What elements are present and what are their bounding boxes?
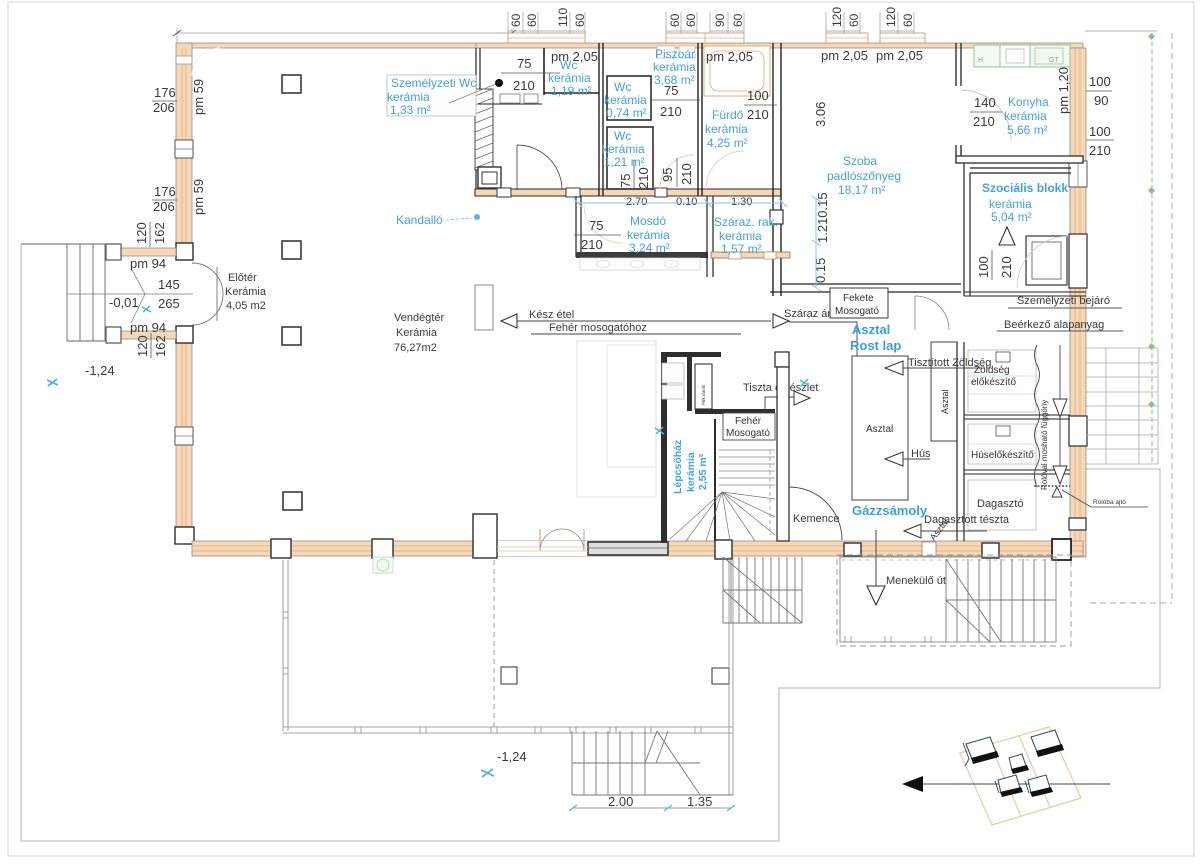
svg-text:5,04 m²: 5,04 m² — [991, 210, 1032, 224]
prep divider 1 — [964, 415, 1070, 419]
fehermosogato box — [723, 413, 775, 440]
pillar below chimney — [475, 285, 493, 330]
exterior top wall konyha — [956, 43, 1083, 48]
top rotated dims 90 60 — [713, 13, 745, 27]
svg-text:75: 75 — [589, 218, 603, 233]
fuerdo bathtub — [704, 46, 770, 96]
blue scribble bottom — [481, 769, 494, 777]
svg-text:kerámia: kerámia — [548, 71, 591, 85]
svg-text:60: 60 — [525, 13, 539, 27]
green diamonds on utility line — [1148, 33, 1155, 408]
shower box szocialis — [1026, 236, 1067, 285]
dim 100/210 fuerdo — [744, 88, 777, 122]
label zoldseg elokeszito — [971, 365, 1016, 388]
wc 1.21 room box — [607, 127, 653, 189]
label wc 1.19 — [548, 58, 592, 98]
svg-text:95: 95 — [660, 168, 675, 182]
green dashed utility line right — [1151, 33, 1153, 465]
svg-text:60: 60 — [684, 13, 698, 27]
right wall small box — [1069, 518, 1086, 530]
svg-text:kerámia: kerámia — [653, 60, 696, 74]
blue mark near entry — [142, 306, 151, 312]
svg-text:140: 140 — [974, 95, 996, 110]
svg-text:Rolóval mosható függöny: Rolóval mosható függöny — [1040, 400, 1049, 490]
svg-text:kerámia: kerámia — [627, 228, 670, 242]
right wall door opening — [1069, 234, 1087, 288]
green counters zoldseg — [968, 350, 1036, 412]
svg-text:Szociális blokk: Szociális blokk — [982, 181, 1068, 195]
window dim extension lines cluster5 — [880, 12, 914, 33]
svg-text:120: 120 — [830, 7, 844, 27]
konyha counters green — [974, 45, 1070, 67]
dims right 100/90 — [1086, 74, 1112, 108]
window dim extension lines cluster4 — [826, 12, 860, 33]
svg-text:Konyha: Konyha — [1008, 95, 1049, 109]
label pm 2,05 szoba (x2) — [821, 48, 923, 63]
lepcsohaz top wall — [667, 352, 721, 357]
site boundary left/bottom — [21, 245, 1160, 841]
svg-text:120: 120 — [135, 335, 150, 357]
left exterior wall upper — [176, 43, 192, 245]
svg-text:120: 120 — [884, 7, 898, 27]
porch column top — [106, 244, 121, 260]
prep rooms left wall — [957, 342, 964, 541]
terrace right edge — [729, 557, 733, 795]
right terrace dashed outline — [837, 555, 1071, 646]
label feher mosogatohoz — [531, 322, 741, 334]
green counters hus — [968, 424, 1036, 464]
faint door arc mosdo — [584, 205, 622, 243]
right terrace inner rect — [840, 557, 1056, 642]
svg-text:Személyzeti bejáró: Személyzeti bejáró — [1017, 295, 1110, 307]
svg-text:0.15: 0.15 — [813, 258, 828, 283]
rotated dims 120 162 above porch — [134, 222, 167, 247]
window band top 2 — [666, 33, 744, 43]
svg-text:210: 210 — [679, 163, 694, 185]
szocialis top wall — [970, 168, 1071, 173]
parking area orange outline — [960, 727, 1081, 825]
svg-text:Tisztított Zöldség: Tisztított Zöldség — [908, 357, 991, 369]
svg-text:1.35: 1.35 — [687, 794, 712, 809]
svg-text:pm 59: pm 59 — [191, 179, 206, 215]
dims left wall 176/206 pm59 lower — [152, 179, 206, 215]
shower arrow triangle — [999, 227, 1015, 245]
svg-text:kerámia: kerámia — [1004, 109, 1047, 123]
lepcsohaz inner wall — [714, 419, 716, 541]
svg-text:-1,24: -1,24 — [85, 363, 115, 378]
rotated dims 120 162 below porch — [135, 333, 168, 358]
bottom wall column 2 — [372, 539, 393, 558]
label kandallo — [396, 213, 480, 227]
left wall column (porch bottom) — [176, 326, 193, 343]
svg-text:pm 94: pm 94 — [130, 256, 166, 271]
dims right 100/210 — [1086, 124, 1114, 158]
svg-text:1,19 m²: 1,19 m² — [551, 84, 592, 98]
bottom wall box 4 — [982, 543, 999, 558]
window band top 3 — [826, 33, 868, 43]
svg-text:Mosogató: Mosogató — [835, 306, 879, 317]
kesz etel arrow left — [501, 314, 517, 328]
label fekete mosogato box — [830, 288, 888, 318]
svg-text:1,21 m²: 1,21 m² — [604, 155, 645, 169]
bottom wall glazed door band — [588, 542, 668, 555]
svg-text:Mosogató: Mosogató — [726, 428, 770, 439]
car 4 — [995, 775, 1023, 797]
blue dim ticks szoba left — [812, 196, 821, 291]
tiszta etkeszlet label + arrow — [743, 382, 818, 412]
terrace bottom ticks — [355, 727, 701, 733]
label lepcsohaz rotated — [672, 440, 709, 494]
svg-text:100: 100 — [747, 88, 769, 103]
svg-text:Rost lap: Rost lap — [850, 338, 901, 353]
svg-text:Fürdő: Fürdő — [712, 108, 744, 122]
label szemelyzeti wc box — [387, 75, 476, 117]
top rotated dims 120 60 — [830, 7, 861, 27]
piszoar right wall — [698, 43, 702, 196]
svg-text:pm 2,05: pm 2,05 — [876, 48, 923, 63]
label vendegter — [394, 312, 444, 354]
washer green boxes — [662, 363, 684, 399]
dashed line terrace center — [493, 560, 495, 727]
label elotor — [225, 272, 267, 312]
szocialis left wall — [964, 163, 970, 296]
left exterior wall lower — [176, 342, 192, 528]
bottom wall box 3 — [844, 543, 861, 556]
hall column 2 — [282, 241, 301, 259]
external dock steps right — [1086, 348, 1158, 464]
porch column bottom — [106, 327, 121, 343]
car 2 — [1031, 730, 1064, 757]
szaraz rak south wall — [711, 252, 790, 259]
terrace bottom edge — [283, 727, 733, 733]
right stairs — [946, 559, 1056, 642]
svg-text:Húselőkészítő: Húselőkészítő — [971, 450, 1034, 461]
svg-text:210: 210 — [747, 107, 769, 122]
wc 0.74 room box — [607, 76, 651, 120]
svg-text:Lépcsőház: Lépcsőház — [672, 440, 684, 494]
svg-text:206: 206 — [153, 100, 175, 115]
svg-text:75: 75 — [618, 174, 633, 188]
svg-text:90: 90 — [713, 13, 727, 27]
tisztitott zoldseg arrow — [885, 357, 991, 375]
bottom wall pier east — [1052, 539, 1071, 560]
mid stairs below lepcsohaz — [723, 557, 802, 623]
faint arc hall corner — [192, 48, 220, 76]
mosdo bottom wall thick — [576, 252, 708, 258]
right wall opening 2 — [1069, 416, 1087, 446]
porch wall bottom — [121, 331, 176, 339]
svg-text:Hús: Hús — [911, 448, 931, 460]
gray dashed boundary right — [1090, 33, 1172, 603]
svg-text:210: 210 — [581, 237, 603, 252]
porch wall top — [121, 248, 176, 256]
terrace column 2 — [712, 668, 729, 684]
rolo arrows line — [1053, 345, 1067, 484]
stairs lepcsohaz treads — [719, 450, 775, 485]
right terrace inner ticks — [845, 636, 931, 642]
leader to dot — [449, 79, 503, 103]
faint door arc piszoar — [660, 155, 694, 189]
blue scribble lepcso — [655, 427, 664, 434]
svg-text:Szoba: Szoba — [843, 154, 877, 168]
site boundary top-right — [1085, 30, 1157, 32]
kemence door arc — [789, 487, 842, 540]
top dimension line — [177, 28, 512, 43]
svg-text:5,66 m²: 5,66 m² — [1007, 123, 1048, 137]
rotated dim 1.21 0.15 — [813, 192, 830, 283]
lepcsohaz mid wall — [695, 409, 775, 414]
left wall window 2 — [175, 427, 193, 445]
svg-text:176: 176 — [154, 184, 176, 199]
svg-text:75: 75 — [664, 83, 678, 98]
chimney hatched block — [475, 89, 493, 170]
prep divider 2 — [964, 470, 1070, 474]
right wall door arc — [1017, 236, 1069, 288]
svg-text:Fehér mosogatóhoz: Fehér mosogatóhoz — [549, 322, 647, 334]
big table asztal — [852, 356, 908, 500]
svg-text:pm 2,05: pm 2,05 — [821, 48, 868, 63]
right exterior wall — [1070, 48, 1086, 557]
top dim tick left — [173, 30, 516, 36]
svg-text:Asztal: Asztal — [852, 322, 890, 337]
svg-text:Kész étel: Kész étel — [529, 309, 574, 321]
rotated dims 100 210 szocialis — [976, 250, 1014, 280]
svg-text:Gázzsámoly: Gázzsámoly — [852, 503, 928, 518]
blue scribble left — [47, 379, 58, 386]
bottom big stairs — [572, 731, 733, 795]
bottom exterior wall — [192, 541, 1083, 556]
svg-text:210: 210 — [636, 167, 651, 189]
right terrace green dash row — [842, 559, 1054, 561]
svg-text:100: 100 — [976, 256, 991, 278]
svg-text:Száraz árú: Száraz árú — [784, 308, 837, 320]
roloba ajto leader — [1052, 487, 1148, 507]
hus arrow — [885, 448, 931, 466]
terrace column 1 — [501, 667, 517, 684]
label konyha — [1004, 95, 1049, 137]
exterior top wall wc block — [476, 43, 956, 48]
svg-text:Fekete: Fekete — [843, 293, 874, 304]
svg-text:4,05 m2: 4,05 m2 — [226, 300, 266, 312]
dim 75/210 piszoar — [652, 83, 700, 119]
line under szaraz aru — [789, 322, 857, 356]
svg-text:176: 176 — [154, 85, 176, 100]
mosdo left wall — [576, 196, 581, 257]
rolo curtain wavy — [1035, 345, 1040, 487]
szoba konyha divider wall — [956, 43, 961, 163]
svg-text:Kerámia: Kerámia — [225, 286, 267, 298]
entry stairs — [21, 244, 193, 341]
dim 75/210 szwc — [501, 56, 560, 93]
car 3 — [1009, 754, 1029, 774]
closet left wall — [687, 357, 692, 411]
label szocialis blokk — [982, 181, 1068, 224]
label szemelyzeti bejaro — [1008, 295, 1122, 308]
svg-text:kerámia: kerámia — [989, 197, 1032, 211]
svg-text:1,57 m²: 1,57 m² — [721, 242, 762, 256]
bottom wall opening east — [922, 542, 936, 556]
bottom wall column 1 — [271, 539, 291, 558]
bottom wall west double door arcs — [540, 529, 584, 551]
fireplace box in sz wc room — [478, 167, 501, 188]
svg-text:Beérkező alapanyag: Beérkező alapanyag — [1004, 319, 1104, 331]
rotated dims 75 210 wc121 — [618, 160, 651, 190]
sz wc door leaf and arc — [517, 145, 562, 190]
svg-text:pm 2,05: pm 2,05 — [706, 49, 753, 64]
svg-text:100: 100 — [1089, 74, 1111, 89]
svg-text:kerámia: kerámia — [685, 452, 697, 492]
svg-text:2,55 m²: 2,55 m² — [697, 453, 709, 490]
szoba left wall — [773, 43, 781, 296]
window dim extension lines cluster2 — [666, 12, 697, 33]
svg-text:210: 210 — [973, 114, 995, 129]
svg-text:18,17 m²: 18,17 m² — [838, 183, 885, 197]
svg-text:Személyzeti Wc: Személyzeti Wc — [391, 76, 476, 90]
svg-text:-1,24: -1,24 — [497, 749, 527, 764]
piszoar fixtures — [657, 46, 695, 58]
svg-text:Fehér: Fehér — [735, 416, 762, 427]
tall table right — [931, 342, 957, 441]
svg-text:265: 265 — [158, 296, 180, 311]
stairs walk line dashed — [769, 450, 771, 535]
svg-text:210: 210 — [513, 78, 535, 93]
svg-text:kerámia: kerámia — [604, 93, 647, 107]
svg-text:pm 59: pm 59 — [191, 79, 206, 115]
svg-text:60: 60 — [731, 13, 745, 27]
wall below wc cluster — [475, 188, 781, 197]
svg-text:162: 162 — [152, 222, 167, 244]
svg-text:Kemence: Kemence — [793, 513, 839, 525]
window band top 4 — [880, 33, 925, 43]
top rotated dims 60 60 110 60 — [509, 8, 587, 27]
svg-text:kerámia: kerámia — [387, 90, 430, 104]
green circle symbol on wall — [373, 557, 393, 573]
svg-text:Pirk tároló: Pirk tároló — [701, 384, 706, 405]
svg-text:100: 100 — [1089, 124, 1111, 139]
svg-text:padlószőnyeg: padlószőnyeg — [827, 169, 901, 183]
left terrace tick boxes — [283, 612, 288, 674]
lepcsohaz left wall — [661, 352, 667, 543]
left wall corner column (porch top) — [176, 243, 193, 260]
svg-text:120: 120 — [134, 222, 149, 244]
entry double door arcs — [192, 263, 223, 325]
svg-text:kerámia: kerámia — [602, 142, 645, 156]
svg-text:Mosdó: Mosdó — [630, 214, 666, 228]
label beerkezo alapanyag — [997, 319, 1123, 331]
svg-text:206: 206 — [153, 199, 175, 214]
bottom wall T pier — [473, 514, 497, 558]
svg-text:1,33 m²: 1,33 m² — [390, 103, 431, 117]
window dim extension lines cluster1 — [508, 12, 585, 33]
svg-text:60: 60 — [573, 13, 587, 27]
szoba left wall jog boxes — [770, 210, 783, 224]
label asztal rost lap blue — [850, 322, 901, 353]
svg-text:4,25 m²: 4,25 m² — [707, 136, 748, 150]
svg-text:Kandalló: Kandalló — [396, 213, 443, 227]
svg-text:210: 210 — [1089, 143, 1111, 158]
closet box pirk tarolo — [695, 364, 712, 409]
svg-text:kerámia: kerámia — [719, 229, 762, 243]
svg-text:3.06: 3.06 — [813, 102, 828, 127]
svg-text:90: 90 — [1094, 93, 1108, 108]
dim 75/210 mosdo — [574, 218, 621, 252]
exterior top wall hall — [189, 43, 476, 48]
mosdo counter below — [580, 258, 700, 270]
svg-text:60: 60 — [668, 13, 682, 27]
window dim extension lines cluster3 — [710, 12, 744, 33]
car 5 — [1025, 775, 1053, 797]
svg-text:Wc: Wc — [614, 129, 631, 143]
svg-text:Rolóba ajtó: Rolóba ajtó — [1093, 499, 1126, 506]
window band top 1 — [508, 33, 585, 43]
car 1 — [963, 737, 999, 766]
konyha bottom wall — [956, 156, 1083, 163]
svg-text:210: 210 — [660, 104, 682, 119]
svg-text:Vendégtér: Vendégtér — [394, 312, 444, 324]
right wall window — [1069, 161, 1087, 187]
svg-text:110: 110 — [556, 8, 570, 27]
hall column 3 — [282, 327, 301, 345]
label szoba — [827, 154, 901, 197]
svg-text:2.70: 2.70 — [626, 196, 647, 208]
label piszoar — [653, 47, 696, 87]
wc 1.19 room walls — [544, 48, 599, 95]
svg-text:Száraz. rak.: Száraz. rak. — [714, 215, 778, 229]
svg-text:H: H — [978, 57, 983, 64]
szaraz aru arrow right — [773, 314, 789, 328]
left wall window 1 — [175, 140, 193, 158]
svg-text:Dagasztó: Dagasztó — [977, 498, 1023, 510]
rotated dims 95 210 corridor — [660, 158, 694, 187]
label fuerdo — [705, 108, 748, 150]
blue scribble tiszta — [800, 379, 809, 386]
svg-text:3,24 m²: 3,24 m² — [629, 241, 670, 255]
label szaraz rak — [714, 215, 778, 256]
dagasztott teszta arrow — [904, 514, 1010, 542]
left terrace edge vertical — [283, 560, 288, 731]
green counters dagaszto — [968, 480, 1036, 530]
faint door arc fuerdo — [706, 151, 744, 189]
svg-text:Előtér: Előtér — [228, 272, 257, 284]
svg-text:Piszoár: Piszoár — [655, 47, 695, 61]
hall column 4 — [283, 492, 302, 510]
bottom wall pier mid — [715, 540, 732, 559]
dim line 2.00 1.35 — [569, 794, 735, 811]
szemelyzeti wc room walls — [476, 48, 480, 196]
svg-text:-0,01: -0,01 — [109, 295, 139, 310]
svg-text:2.00: 2.00 — [608, 794, 633, 809]
entry dims pm94 145 265 — [109, 256, 180, 335]
bottom wall opening west door — [497, 541, 588, 556]
szocialis room south wall — [964, 292, 1086, 296]
szoba bottom wall — [770, 284, 961, 292]
svg-text:145: 145 — [158, 277, 180, 292]
menekulo ut line arrow — [867, 530, 946, 605]
svg-text:pm 1,20: pm 1,20 — [1056, 67, 1071, 114]
kemence wall pier — [775, 352, 789, 367]
dim 140/210 konyha — [970, 95, 1002, 129]
wall between sz wc and piszoar column — [599, 43, 603, 196]
svg-text:0,74 m²: 0,74 m² — [606, 106, 647, 120]
szocialis door arc — [915, 296, 949, 330]
svg-text:1.30: 1.30 — [731, 196, 752, 208]
svg-text:Asztal: Asztal — [866, 424, 893, 435]
svg-text:pm 94: pm 94 — [130, 320, 166, 335]
stairs lepcsohaz fan — [670, 492, 775, 541]
svg-text:60: 60 — [509, 13, 523, 27]
svg-text:előkészítő: előkészítő — [971, 377, 1016, 388]
blue dim line mosdo — [574, 199, 787, 207]
